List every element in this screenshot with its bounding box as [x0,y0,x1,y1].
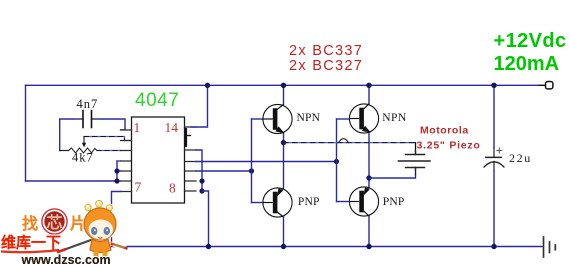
wire: pin 8 jog down to ground rail [202,191,209,247]
svg-text:8: 8 [169,181,176,196]
svg-text:4n7: 4n7 [77,97,99,111]
wire: node A to piezo (dashed) [284,142,416,144]
transistor Q1 NPN [263,104,292,133]
capacitor C2 22u plates [493,148,495,158]
node: Q1 collector rail junction [281,83,286,88]
svg-text:120mA: 120mA [494,53,560,75]
terminal: +12V supply terminal [546,82,553,89]
svg-text:4047: 4047 [135,90,179,111]
wire: left vertical rail [25,85,27,181]
svg-text:7: 7 [135,180,142,195]
node: cap rail junction top [491,83,496,88]
wire: Q3 collector to ground rail [283,217,285,247]
svg-text:NPN: NPN [297,112,321,124]
node: bridge1 bases junction [249,168,254,173]
capacitor C2 plus sign [497,148,502,153]
wire: pin 11 (Q-bar) to bridge 2 bases [196,161,337,163]
wire: top rail black tail to terminal [539,84,546,86]
wire: bridge 1 emitters vertical [283,133,285,188]
svg-text:找: 找 [22,214,38,233]
transistor Q2 NPN [349,104,378,133]
node B: bridge 2 output node [366,175,371,180]
wire: pins 4-5-6 tie vertical [116,161,118,181]
svg-text:NPN: NPN [382,112,407,124]
transistor Q3 PNP [263,188,292,217]
mascot right arm with pencil [111,244,126,249]
svg-text:Motorola: Motorola [420,125,469,137]
wire: piezo top lead [415,143,417,154]
node: pin 8 junction [199,188,204,193]
wire: C1 plate stubs [76,118,100,120]
resistor R1 4k7 zigzag [69,148,98,153]
wire: bridge 2 bases vertical [336,119,338,202]
resistor R1 4k7 leads [60,150,69,152]
node A: bridge 1 output node [281,140,286,145]
svg-text:4k7: 4k7 [72,151,94,165]
svg-text:芯: 芯 [47,213,63,232]
wire: 22u cap bottom lead [493,170,495,247]
svg-text:1: 1 [134,120,141,135]
trimmer arrow on R1 [83,137,85,144]
wire: 22u cap top lead [493,85,495,147]
wire hop on piezo wire [339,139,349,143]
capacitor C1 4n7 plates [83,111,92,128]
mascot body [90,239,111,253]
wire: cap C1 left lead loop [60,119,83,151]
wire: pin 14 to +12V rail [191,85,208,127]
ground symbol [543,237,545,257]
svg-text:3.25" Piezo: 3.25" Piezo [417,140,481,152]
node: pin6 junction [114,178,119,183]
watermark red swoosh underline [1,250,59,252]
svg-text:2x BC337: 2x BC337 [289,43,363,59]
node: Q2 collector rail junction [366,83,371,88]
IC U1 left pin stubs [121,130,132,192]
wire: pins 12,9,8 ground tie [196,150,202,191]
IC U1 right pin stubs [185,127,197,191]
wire: pin 10 (Q) to bridge 1 bases [196,170,252,172]
node: Q4 collector rail junction [366,244,371,249]
wire: left rail to IC pins 4,5,6 [26,180,118,182]
svg-text:2x BC327: 2x BC327 [289,58,363,74]
transistor Q4 PNP [349,187,378,216]
wire: cap C1 right lead to pin 1 [92,119,126,130]
svg-text:www.dzsc.com: www.dzsc.com [21,253,111,266]
wire: bridge 1 bases vertical [251,119,253,203]
watermark pen stroke [62,239,95,251]
pin 13 no-connect T marker [185,129,187,146]
node: pin5 junction [114,168,119,173]
mascot head [82,206,117,241]
node: Q3 collector rail junction [281,244,286,249]
node: pin 9 junction [199,178,204,183]
IC U1 4047 body [132,117,185,203]
node: cap rail junction bottom [491,244,496,249]
watermark circle chip logo [42,209,67,234]
wire: R1 right lead to pin 3 (dashed) [97,150,121,152]
node: pin14 rail junction [205,83,210,88]
svg-text:PNP: PNP [383,196,405,208]
svg-text:PNP: PNP [298,196,320,208]
wire: trimmer wiper to pin 2 (dashed) [84,137,132,141]
node: bridge2 bases junction [334,159,339,164]
wire: Q4 collector to ground rail [368,216,370,247]
wire: Q1 collector to +12V rail [283,85,285,104]
wire: bottom rail gray tail [541,246,544,248]
wire: pin 7 to ground rail [112,192,121,247]
wire: +12V top rail [26,84,540,86]
piezo LS1 plates [406,154,425,156]
wire: bridge 2 emitters vertical [368,133,370,187]
watermark logo group [1,199,128,259]
svg-text:维库一下: 维库一下 [1,234,61,252]
svg-text:22u: 22u [509,151,532,165]
svg-text:14: 14 [165,120,179,135]
wire: ground bottom rail [112,246,542,248]
svg-text:+12Vdc: +12Vdc [494,30,567,52]
node: IC ground rail junction [206,244,211,249]
wire: Q2 collector to +12V rail [368,85,370,104]
wire: node B to piezo bottom [369,175,416,179]
